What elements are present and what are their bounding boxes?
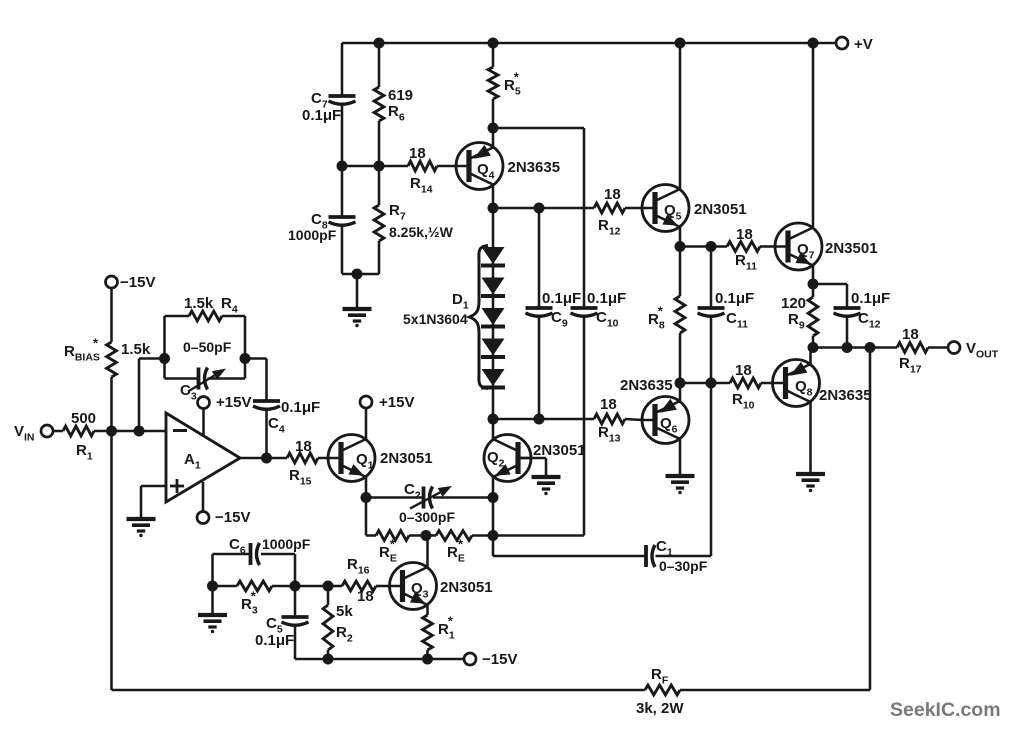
svg-text:18: 18 bbox=[295, 438, 312, 455]
svg-text:−15V: −15V bbox=[215, 509, 250, 526]
svg-text:+15V: +15V bbox=[216, 394, 251, 411]
svg-text:18: 18 bbox=[735, 362, 752, 379]
svg-text:−15V: −15V bbox=[482, 651, 517, 668]
svg-text:0–30pF: 0–30pF bbox=[659, 558, 708, 574]
svg-text:2N3051: 2N3051 bbox=[533, 442, 586, 459]
svg-text:2N3635: 2N3635 bbox=[620, 377, 673, 394]
svg-text:2N3501: 2N3501 bbox=[825, 240, 878, 257]
svg-text:0.1μF: 0.1μF bbox=[542, 290, 581, 307]
svg-text:+V: +V bbox=[854, 36, 873, 53]
svg-text:0.1μF: 0.1μF bbox=[302, 107, 341, 124]
svg-text:0.1μF: 0.1μF bbox=[281, 399, 320, 416]
svg-text:2N3635: 2N3635 bbox=[508, 159, 561, 176]
svg-text:18: 18 bbox=[736, 226, 753, 243]
svg-text:−15V: −15V bbox=[120, 274, 155, 291]
svg-text:619: 619 bbox=[388, 87, 413, 104]
svg-text:0–50pF: 0–50pF bbox=[183, 339, 232, 355]
svg-text:2N3635: 2N3635 bbox=[819, 387, 872, 404]
svg-text:18: 18 bbox=[604, 186, 621, 203]
svg-text:2N3051: 2N3051 bbox=[694, 201, 747, 218]
svg-text:5x1N3604: 5x1N3604 bbox=[403, 311, 468, 327]
svg-text:18: 18 bbox=[902, 326, 919, 343]
svg-text:1.5k: 1.5k bbox=[121, 341, 151, 358]
svg-text:+15V: +15V bbox=[379, 394, 414, 411]
svg-text:5k: 5k bbox=[336, 603, 353, 620]
svg-text:18: 18 bbox=[600, 396, 617, 413]
svg-text:0.1μF: 0.1μF bbox=[715, 290, 754, 307]
svg-text:0.1μF: 0.1μF bbox=[587, 290, 626, 307]
svg-text:0–300pF: 0–300pF bbox=[399, 509, 455, 525]
svg-text:3k, 2W: 3k, 2W bbox=[636, 700, 684, 717]
svg-text:SeekIC.com: SeekIC.com bbox=[890, 699, 1001, 721]
svg-text:500: 500 bbox=[71, 410, 96, 427]
svg-text:0.1μF: 0.1μF bbox=[851, 290, 890, 307]
svg-text:8.25k,½W: 8.25k,½W bbox=[389, 224, 454, 240]
svg-text:0.1μF: 0.1μF bbox=[255, 632, 294, 649]
svg-text:2N3051: 2N3051 bbox=[380, 450, 433, 467]
svg-text:120: 120 bbox=[781, 295, 806, 312]
svg-text:2N3051: 2N3051 bbox=[440, 579, 493, 596]
svg-text:1.5k: 1.5k bbox=[184, 295, 214, 312]
svg-text:18: 18 bbox=[357, 588, 374, 605]
svg-text:1000pF: 1000pF bbox=[288, 227, 337, 243]
svg-text:18: 18 bbox=[409, 145, 426, 162]
svg-text:1000pF: 1000pF bbox=[262, 536, 311, 552]
